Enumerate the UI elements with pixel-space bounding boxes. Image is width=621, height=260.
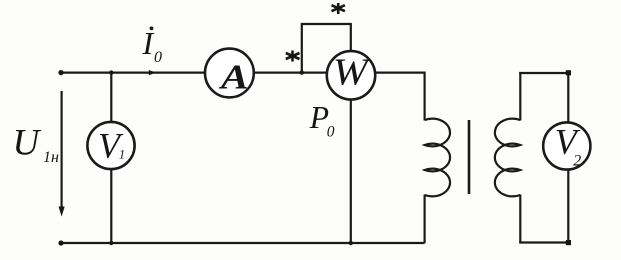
svg-text:1: 1 bbox=[119, 147, 126, 162]
svg-text:1н: 1н bbox=[43, 149, 59, 166]
svg-text:2: 2 bbox=[573, 152, 581, 169]
svg-text:U: U bbox=[13, 123, 42, 164]
svg-text:0: 0 bbox=[154, 49, 162, 66]
svg-text:0: 0 bbox=[327, 123, 335, 140]
svg-text:I: I bbox=[142, 25, 155, 61]
svg-text:A: A bbox=[219, 58, 249, 96]
svg-text:W: W bbox=[333, 50, 372, 93]
